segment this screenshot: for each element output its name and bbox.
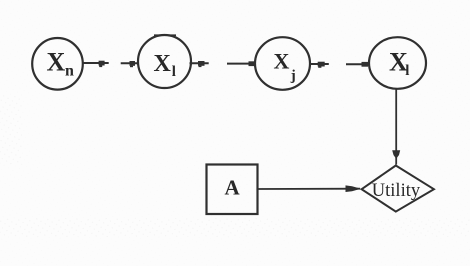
chance node X_l circle [369,37,426,89]
svg-text:j: j [290,68,296,84]
wire arrow segment 1a (X_n to mid-gap) [84,62,109,64]
svg-text:A: A [225,175,241,199]
svg-text:l: l [405,63,409,79]
wire arrow segment 2a (X_i to mid-gap) [190,62,209,64]
wire arrow A to Utility [258,188,360,190]
left edge scan patch [0,95,22,165]
wire arrow segment 3a (X_j to mid-gap) [311,63,329,65]
svg-text:l: l [172,64,176,80]
bottom scan band [0,218,470,237]
utility node diamond [362,166,434,212]
svg-text:X: X [154,51,172,77]
wire arrow segment 2b (mid-gap to X_j) [227,63,256,65]
chance node X_n circle [32,38,83,90]
wire arrow segment 3b (mid-gap to X_l) [346,63,370,65]
chance node X_j circle [255,37,310,90]
label X_i [154,51,176,80]
svg-text:n: n [65,62,74,79]
X_i circle top flat stroke [154,34,176,36]
wire arrow segment 1b (mid-gap to X_i) [121,62,139,64]
svg-text:X: X [274,48,290,73]
label X_l [389,47,409,79]
svg-text:Utility: Utility [372,181,421,201]
chance node X_i circle [138,35,191,88]
svg-text:X: X [47,47,66,76]
wire arrow X_l down to Utility [395,89,397,165]
label X_n [47,47,75,79]
label X_j [274,48,296,84]
action node A square [207,165,258,215]
